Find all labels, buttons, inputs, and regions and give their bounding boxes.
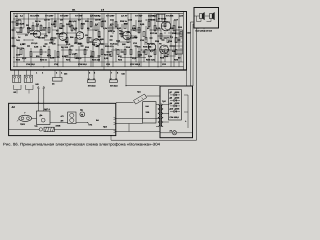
svg-text:12В: 12В [146,111,150,114]
svg-text:R20: R20 [178,26,183,29]
svg-text:20,0: 20,0 [66,43,71,46]
svg-text:ХП 4Ом: ХП 4Ом [88,84,96,87]
svg-text:62: 62 [178,57,181,60]
svg-text:С2 5,0: С2 5,0 [31,42,38,45]
svg-text:0,1: 0,1 [20,14,24,17]
svg-text:1,2к: 1,2к [103,27,108,30]
svg-text:R13 1к: R13 1к [108,30,116,33]
svg-text:R22 330: R22 330 [92,59,101,62]
svg-text:5,6к: 5,6к [27,27,32,30]
svg-text:АТ 25В: АТ 25В [166,14,174,17]
svg-text:330: 330 [124,23,128,26]
svg-text:ХП 4Ом: ХП 4Ом [110,84,118,87]
svg-text:0,25: 0,25 [156,27,161,30]
svg-text:АП: АП [61,115,64,118]
svg-text:3: 3 [56,71,58,74]
svg-text:120: 120 [66,23,70,26]
svg-text:R6: R6 [43,45,47,48]
svg-text:Шп: Шп [64,73,68,76]
svg-text:R3 22к: R3 22к [17,47,25,50]
svg-text:R7: R7 [54,20,58,23]
svg-text:С15 50: С15 50 [148,19,156,22]
svg-text:Д9: Д9 [170,102,173,105]
svg-text:МП39Б: МП39Б [56,33,64,36]
svg-text:Пр2: Пр2 [103,126,108,129]
svg-text:2: 2 [42,71,44,74]
svg-text:С9 50: С9 50 [95,19,102,22]
svg-text:Д7: Д7 [170,91,173,94]
svg-text:R16 220: R16 220 [143,46,152,49]
svg-text:АТ НЗГ: АТ НЗГ [135,14,143,17]
svg-text:5: 5 [89,71,91,74]
svg-text:Г: Г [25,112,27,115]
svg-text:СА АТ: СА АТ [121,14,128,17]
svg-text:220В: 220В [56,124,61,127]
svg-text:R17 56: R17 56 [150,32,158,35]
svg-text:7: 7 [111,71,113,74]
svg-text:270: 270 [44,35,48,38]
svg-text:В2: В2 [14,91,17,94]
svg-text:3,3: 3,3 [170,36,174,39]
svg-text:ЗП: ЗП [61,120,64,123]
svg-text:R9 5,1к: R9 5,1к [69,20,77,23]
svg-text:R17: R17 [138,20,143,23]
svg-text:R20 1к: R20 1к [40,59,48,62]
svg-text:6: 6 [94,71,96,74]
svg-text:С17: С17 [174,19,179,22]
svg-text:R10: R10 [85,46,90,49]
svg-text:Эд: Эд [80,109,83,112]
svg-text:15к: 15к [137,46,141,49]
svg-text:Л1 СН7Б: Л1 СН7Б [30,14,40,17]
svg-text:А2: А2 [12,106,16,109]
svg-text:Тр2: Тр2 [162,100,166,103]
svg-text:0,05: 0,05 [73,27,78,30]
svg-text:Пр1: Пр1 [137,91,142,94]
svg-text:С14: С14 [168,40,173,43]
svg-text:82: 82 [147,27,150,30]
svg-text:R13: R13 [102,20,107,23]
svg-text:Гр1 0,5ГД-12 Гр2: Гр1 0,5ГД-12 Гр2 [196,29,213,32]
svg-text:10к: 10к [59,27,63,30]
svg-text:Д10: Д10 [170,107,175,110]
svg-text:С24 500,0: С24 500,0 [170,116,180,119]
svg-text:С12: С12 [133,42,138,45]
svg-text:АТ 12ВГ: АТ 12ВГ [60,14,69,17]
svg-text:В1: В1 [15,15,19,18]
svg-text:Кр: Кр [98,14,101,17]
svg-text:С19 50,0: С19 50,0 [78,63,87,66]
svg-text:100,0: 100,0 [76,57,82,60]
svg-text:1к: 1к [80,43,83,46]
svg-text:Рис. 86. Принципиальная электр: Рис. 86. Принципиальная электрическая сх… [3,142,160,146]
svg-text:1к: 1к [18,36,21,39]
svg-text:АТ 12ВГ: АТ 12ВГ [106,14,115,17]
svg-text:8: 8 [117,71,119,74]
svg-text:1: 1 [36,71,38,74]
svg-text:68: 68 [87,27,90,30]
svg-text:Т2: Т2 [56,30,59,33]
svg-text:Д226: Д226 [175,96,181,99]
svg-text:С8: С8 [110,35,114,38]
svg-text:АТ 12ВГ: АТ 12ВГ [45,14,54,17]
svg-text:Д226: Д226 [175,107,181,110]
svg-text:5,6к: 5,6к [132,27,137,30]
svg-text:С24: С24 [179,14,184,17]
svg-text:1,0: 1,0 [36,23,40,26]
svg-text:Д226: Д226 [175,102,181,105]
svg-text:Д8: Д8 [170,96,173,99]
svg-text:С22: С22 [162,63,167,66]
svg-text:120: 120 [52,43,56,46]
svg-text:Д226: Д226 [175,91,181,94]
svg-text:С13: С13 [128,19,133,22]
svg-text:Т7 П214: Т7 П214 [158,18,167,21]
svg-text:С3 10: С3 10 [44,19,51,22]
svg-text:Ш2: Ш2 [36,83,40,86]
svg-text:Лв: Лв [90,124,93,127]
svg-text:Т8: Т8 [159,43,162,46]
svg-text:С21 100,0: С21 100,0 [130,63,141,66]
svg-text:ЭДГ-1: ЭДГ-1 [44,108,51,111]
svg-text:С11: С11 [110,19,115,22]
svg-text:1,5к: 1,5к [148,55,153,58]
svg-text:30,0: 30,0 [22,57,27,60]
svg-text:С16 20,0: С16 20,0 [26,63,35,66]
svg-text:0,15: 0,15 [50,57,55,60]
svg-text:0,25: 0,25 [104,57,109,60]
svg-text:Ш3: Ш3 [122,73,126,76]
svg-text:R14: R14 [126,46,131,49]
svg-text:R8 120: R8 120 [61,46,69,49]
svg-text:0,01: 0,01 [51,23,56,26]
svg-text:R2: R2 [26,24,30,27]
svg-text:100: 100 [170,27,174,30]
svg-text:М: М [81,113,83,116]
svg-text:С20: С20 [106,63,111,66]
svg-text:Т4: Т4 [89,37,92,40]
svg-text:Дв: Дв [40,114,43,117]
svg-text:R11: R11 [85,20,90,23]
svg-text:Ш4: Ш4 [146,105,150,108]
svg-text:С2: С2 [25,34,29,37]
svg-text:680: 680 [100,38,104,41]
svg-text:R4 1к: R4 1к [35,20,42,23]
svg-text:Зв: Зв [52,83,55,86]
svg-text:20,0: 20,0 [132,57,137,60]
svg-text:В4: В4 [96,119,99,122]
svg-text:МП39Б: МП39Б [30,33,38,36]
svg-text:R27 10: R27 10 [104,54,112,57]
svg-text:0,5: 0,5 [95,23,99,26]
svg-text:10,0: 10,0 [110,43,115,46]
svg-text:0,05: 0,05 [140,23,145,26]
svg-text:56к: 56к [70,36,74,39]
svg-text:0,05: 0,05 [20,23,25,26]
svg-text:4: 4 [61,71,63,74]
svg-text:С10: С10 [140,39,145,42]
svg-text:330: 330 [43,27,47,30]
svg-text:360: 360 [122,43,126,46]
svg-text:Тр1: Тр1 [153,14,158,17]
svg-text:24к: 24к [134,36,138,39]
svg-text:R23: R23 [118,59,123,62]
svg-text:47к: 47к [110,23,114,26]
svg-text:+: + [185,120,187,123]
svg-text:АТ НПГ: АТ НПГ [75,14,83,17]
svg-text:ГЗКУ: ГЗКУ [20,123,26,126]
svg-text:0,01: 0,01 [117,27,122,30]
svg-text:R19: R19 [16,59,21,62]
svg-text:0,05: 0,05 [164,55,169,58]
svg-text:Гн3: Гн3 [16,39,20,42]
svg-text:С23: С23 [138,54,143,57]
svg-text:0,05: 0,05 [34,46,39,49]
svg-text:R24 1Ом: R24 1Ом [146,59,155,62]
